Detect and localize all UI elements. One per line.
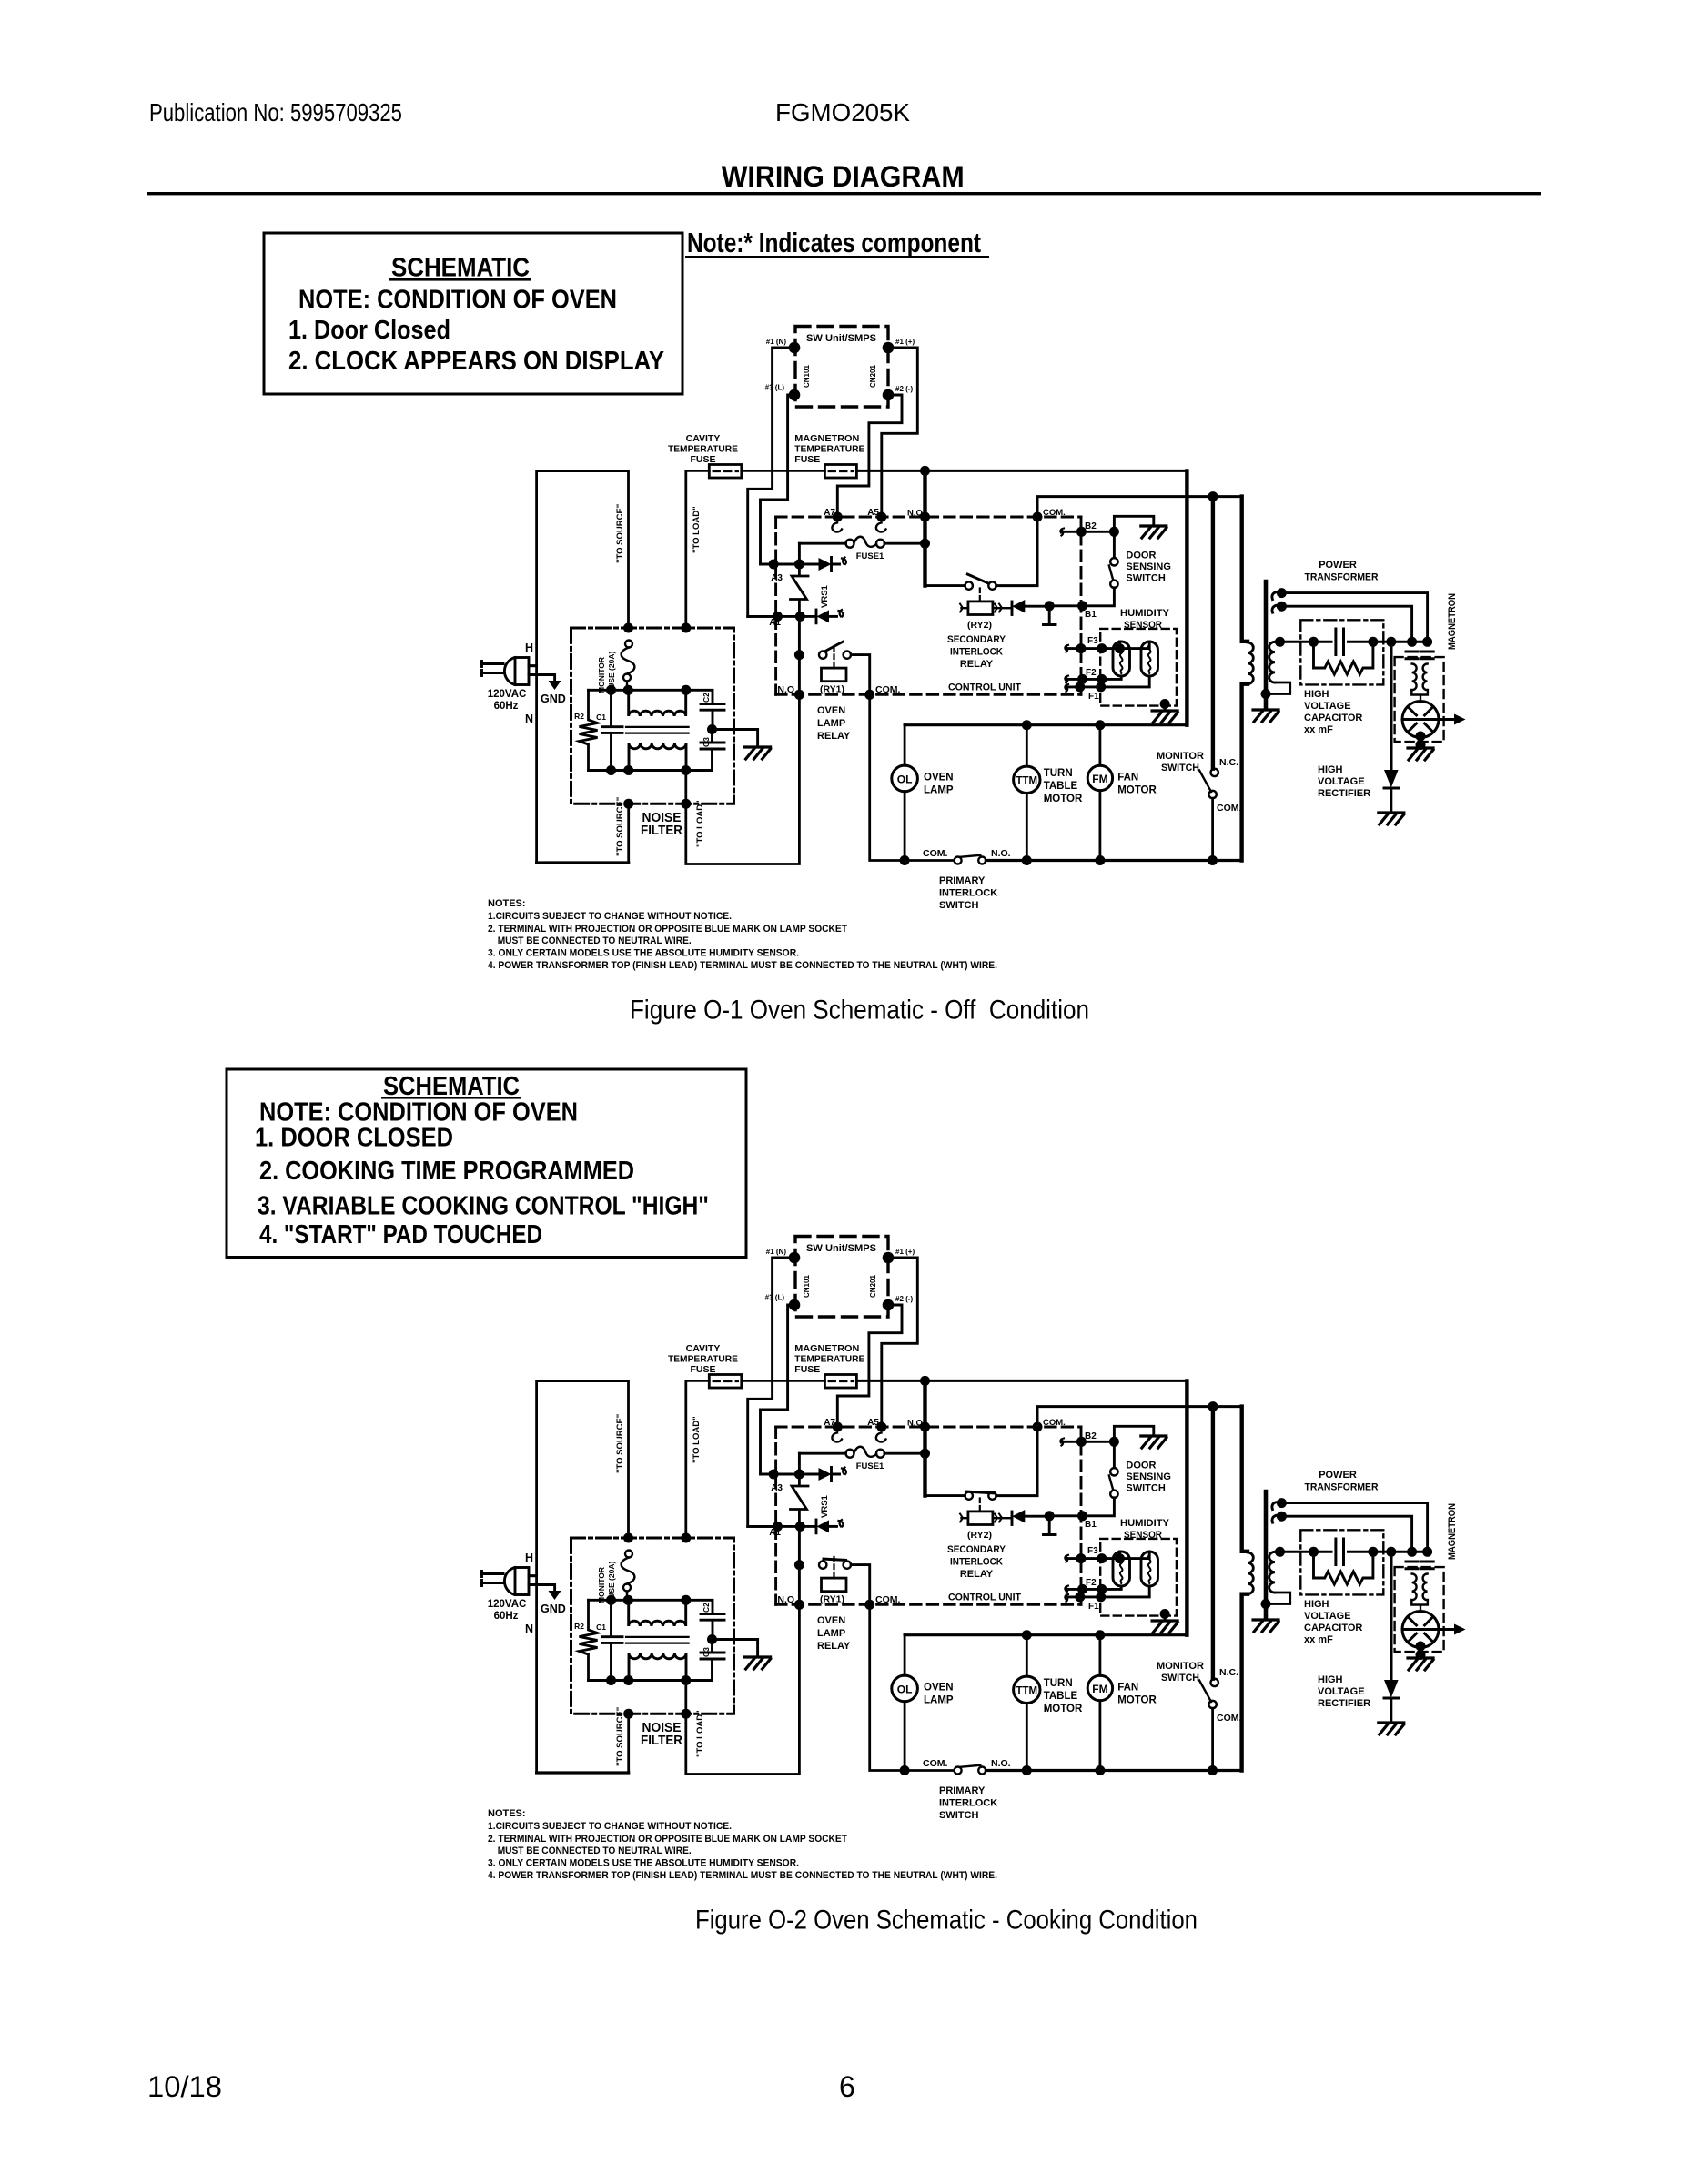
noise filter choke transformer [626, 690, 689, 770]
relay RY1 coil [833, 647, 834, 667]
svg-text:CN201: CN201 [869, 365, 877, 388]
svg-text:GND: GND [541, 693, 566, 705]
ground GND at plug [549, 681, 561, 690]
svg-text:OVEN: OVEN [817, 705, 845, 716]
svg-text:A3: A3 [771, 573, 783, 583]
svg-text:COM.: COM. [1217, 803, 1241, 814]
svg-text:SENSOR: SENSOR [1124, 620, 1162, 631]
svg-text:SW Unit/SMPS: SW Unit/SMPS [806, 333, 876, 344]
svg-text:CONTROL UNIT: CONTROL UNIT [948, 682, 1021, 693]
diode D1 [819, 558, 832, 571]
primary interlock switch [955, 857, 962, 864]
svg-text:B2: B2 [1085, 521, 1097, 531]
capacitor C2 [686, 690, 724, 729]
svg-text:FM: FM [1092, 773, 1107, 785]
noise filter upper junction line [589, 689, 686, 692]
wire: A1 junction down to RY1 [798, 616, 801, 694]
power transformer core [1264, 581, 1269, 709]
terminal B2 row [1062, 531, 1114, 558]
monitor switch [1211, 497, 1215, 769]
svg-text:LAMP: LAMP [817, 718, 845, 729]
relay RY1 contacts [819, 651, 826, 658]
varistor VRS1 [791, 564, 809, 616]
terminal F1 row [1066, 676, 1149, 687]
svg-text:LAMP: LAMP [924, 785, 954, 796]
pin #2 (-) [883, 389, 895, 401]
svg-text:HUMIDITY: HUMIDITY [1120, 608, 1170, 619]
magnetron filament chokes [1412, 664, 1417, 691]
svg-text:RELAY: RELAY [817, 731, 851, 742]
wire: RY2 to transformer feed riser [996, 497, 1242, 586]
svg-text:1.CIRCUITS SUBJECT TO CHANGE W: 1.CIRCUITS SUBJECT TO CHANGE WITHOUT NOT… [488, 911, 732, 922]
bleeder resistor [1314, 642, 1373, 674]
svg-text:xx mF: xx mF [1304, 724, 1333, 735]
svg-text:"TO SOURCE": "TO SOURCE" [615, 797, 625, 856]
wire: pin #1(+) to terminal A5 [882, 348, 918, 517]
svg-text:HIGH: HIGH [1318, 764, 1343, 775]
node TO SOURCE [623, 623, 633, 633]
relay RY2 blade (fig O-1, open) [966, 574, 988, 584]
svg-text:4. POWER TRANSFORMER TOP (FINI: 4. POWER TRANSFORMER TOP (FINISH LEAD) T… [488, 960, 997, 971]
Figure O-2 schematic: identical circuit, cooking condition [482, 1237, 1466, 1882]
svg-text:FAN: FAN [1117, 773, 1138, 784]
svg-text:WIRING DIAGRAM: WIRING DIAGRAM [722, 160, 965, 193]
pin #3 (L) [789, 389, 801, 401]
svg-text:OVEN: OVEN [924, 773, 954, 784]
wire: TO LOAD riser to top bus [686, 470, 710, 628]
svg-text:RECTIFIER: RECTIFIER [1318, 788, 1370, 799]
svg-text:TEMPERATURE: TEMPERATURE [668, 444, 738, 455]
svg-text:VRS1: VRS1 [820, 584, 830, 608]
title rule [147, 192, 1541, 195]
wire: RY1 to COM drop [851, 655, 869, 695]
svg-text:A7: A7 [824, 508, 835, 518]
svg-text:1. Door Closed: 1. Door Closed [288, 316, 450, 345]
svg-text:COM.: COM. [875, 684, 900, 695]
humidity sensor ground node [1160, 699, 1170, 709]
svg-text:VOLTAGE: VOLTAGE [1304, 701, 1351, 712]
svg-text:HIGH: HIGH [1304, 689, 1329, 700]
wire: N line from plug down to source-side bottom rail [537, 666, 629, 863]
diode D3 (RY2 coil feed) [1000, 607, 1012, 609]
svg-text:NOTES:: NOTES: [488, 898, 526, 909]
node dots at filter bottom edge [623, 799, 633, 809]
svg-text:C1: C1 [596, 713, 606, 722]
svg-text:#3 (L): #3 (L) [765, 384, 785, 392]
monitor fuse (20A) [622, 641, 635, 691]
control unit dashed box [776, 517, 1081, 694]
svg-text:INTERLOCK: INTERLOCK [939, 888, 997, 899]
svg-text:TRANSFORMER: TRANSFORMER [1305, 572, 1379, 583]
svg-text:N.O.: N.O. [991, 848, 1011, 859]
svg-text:FUSE1: FUSE1 [856, 551, 884, 561]
humidity sensor element 2 [1141, 642, 1158, 676]
svg-text:(RY1): (RY1) [820, 684, 844, 695]
svg-text:OL: OL [897, 773, 913, 786]
svg-text:TTM: TTM [1016, 776, 1037, 787]
svg-text:(RY2): (RY2) [967, 620, 992, 631]
svg-text:N: N [525, 713, 533, 725]
svg-text:"TO LOAD": "TO LOAD" [695, 800, 705, 847]
wire: filament lead 2 [1281, 606, 1411, 642]
magnetron filament feedthrough capacitors [1406, 652, 1433, 659]
wire: N.O. feed down to RY2 contact [923, 470, 926, 585]
wire: pin #1(N) to terminal A1 [748, 348, 794, 616]
svg-text:#1 (N): #1 (N) [766, 338, 787, 346]
svg-text:MUST BE CONNECTED TO NEUTRAL W: MUST BE CONNECTED TO NEUTRAL WIRE. [498, 935, 692, 946]
svg-text:#1 (+): #1 (+) [895, 338, 915, 346]
svg-text:F3: F3 [1087, 636, 1098, 646]
svg-text:A5: A5 [867, 508, 879, 518]
terminal A5 [876, 512, 886, 522]
svg-text:2. COOKING TIME PROGRAMMED: 2. COOKING TIME PROGRAMMED [259, 1157, 634, 1186]
magnetron tube [1402, 702, 1439, 738]
svg-text:MOTOR: MOTOR [1044, 794, 1083, 804]
relay RY1 blade (fig O-2, closed) [823, 1559, 848, 1561]
humidity sensor dashed box [1100, 629, 1177, 706]
power transformer primary riser [1242, 497, 1248, 861]
svg-text:CN101: CN101 [803, 365, 811, 388]
svg-text:Note:* Indicates component: Note:* Indicates component [687, 227, 981, 258]
svg-text:C2: C2 [702, 693, 711, 703]
svg-text:SENSING: SENSING [1126, 561, 1171, 572]
svg-text:6: 6 [839, 2070, 855, 2103]
door sensing switch [1110, 558, 1117, 565]
svg-text:N.C.: N.C. [1219, 757, 1238, 768]
svg-text:SWITCH: SWITCH [1161, 763, 1199, 773]
terminal F2 row [1066, 676, 1121, 679]
high voltage rectifier [1390, 642, 1392, 770]
svg-text:10/18: 10/18 [147, 2070, 222, 2103]
magnetron temperature fuse [824, 465, 856, 479]
svg-text:MAGNETRON: MAGNETRON [794, 433, 859, 444]
svg-text:DOOR: DOOR [1126, 551, 1156, 561]
cavity temperature fuse [709, 465, 742, 479]
SW Unit/SMPS dashed box [795, 327, 888, 408]
svg-text:POWER: POWER [1319, 560, 1357, 571]
svg-text:Figure O-1 Oven Schematic - Of: Figure O-1 Oven Schematic - Off Conditio… [630, 996, 1089, 1026]
wire: hot feed down to motor rail [1185, 470, 1188, 724]
svg-text:MONITOR: MONITOR [1157, 751, 1204, 762]
svg-text:CAVITY: CAVITY [686, 433, 721, 444]
wire: RY1 COM down to load rail [870, 694, 955, 860]
humidity sensor element 1 [1113, 642, 1130, 676]
HV capacitor plates [1336, 629, 1344, 655]
high voltage line [1280, 641, 1332, 643]
noise filter internal ground tap [713, 730, 758, 748]
svg-text:1. DOOR CLOSED: 1. DOOR CLOSED [255, 1124, 453, 1153]
node N.O. on control unit top edge [920, 512, 930, 522]
svg-text:CAPACITOR: CAPACITOR [1304, 713, 1362, 723]
pin #1 (+) [883, 342, 895, 354]
capacitor C1 [602, 690, 622, 770]
oven lamp OL [904, 725, 906, 766]
fan motor FM [1099, 725, 1102, 766]
svg-text:FUSE: FUSE [690, 454, 715, 465]
schematic note box 2 (Cooking condition) [227, 1069, 746, 1258]
svg-text:VOLTAGE: VOLTAGE [1318, 776, 1365, 787]
diode D2 [815, 610, 818, 623]
wire: H line from plug up and over to noise filter TO SOURCE [529, 471, 629, 666]
svg-text:3. VARIABLE COOKING CONTROL "H: 3. VARIABLE COOKING CONTROL "HIGH" [258, 1192, 709, 1221]
relay RY2 blade (fig O-2, closed) [965, 1491, 996, 1493]
svg-text:SCHEMATIC: SCHEMATIC [391, 254, 530, 283]
svg-text:A1: A1 [769, 618, 781, 628]
svg-text:"TO LOAD": "TO LOAD" [692, 506, 702, 553]
svg-text:N.O.: N.O. [907, 509, 925, 519]
transformer filament leads (finish lead hooks) [1272, 592, 1282, 613]
svg-text:MAGNETRON: MAGNETRON [1447, 593, 1458, 650]
capacitor C3 [686, 730, 724, 771]
svg-text:SECONDARY: SECONDARY [947, 634, 1006, 645]
svg-text:B1: B1 [1085, 610, 1097, 620]
svg-text:SWITCH: SWITCH [939, 900, 978, 911]
wire: source-side bottom rail [537, 861, 629, 864]
power transformer secondary winding [1269, 642, 1275, 682]
noise filter lower bus wire [589, 769, 686, 772]
relay RY1 blade (fig O-1, open) [824, 642, 844, 652]
node COM. on control unit top edge [1033, 512, 1043, 522]
motor supply rail [905, 723, 1187, 726]
svg-text:2. TERMINAL WITH PROJECTION OR: 2. TERMINAL WITH PROJECTION OR OPPOSITE … [488, 924, 847, 935]
svg-text:3. ONLY CERTAIN MODELS USE THE: 3. ONLY CERTAIN MODELS USE THE ABSOLUTE … [488, 948, 799, 959]
relay RY2 contacts [965, 581, 973, 589]
svg-text:TABLE: TABLE [1044, 781, 1078, 792]
resistor R2 [580, 690, 598, 770]
svg-text:MONITOR: MONITOR [597, 657, 606, 693]
svg-text:4. "START" PAD TOUCHED: 4. "START" PAD TOUCHED [259, 1220, 542, 1249]
svg-text:C3: C3 [702, 737, 711, 747]
power transformer primary winding [1248, 642, 1253, 684]
svg-text:F1: F1 [1088, 692, 1099, 702]
svg-text:Publication No: 5995709325: Publication No: 5995709325 [149, 98, 402, 126]
svg-text:INTERLOCK: INTERLOCK [950, 647, 1003, 658]
svg-text:Figure O-2 Oven Schematic - Co: Figure O-2 Oven Schematic - Cooking Cond… [695, 1906, 1198, 1936]
svg-text:FUSE: FUSE [794, 454, 820, 465]
svg-text:MOTOR: MOTOR [1117, 785, 1157, 796]
wire: B1 row to door sensing switch [1049, 588, 1114, 606]
svg-text:PRIMARY: PRIMARY [939, 875, 986, 886]
node TO LOAD [681, 623, 691, 633]
svg-text:#2 (-): #2 (-) [895, 385, 913, 393]
svg-text:COM.: COM. [1043, 508, 1066, 518]
svg-text:"TO SOURCE": "TO SOURCE" [615, 504, 625, 563]
svg-text:60Hz: 60Hz [494, 701, 519, 712]
AC plug 120VAC [482, 658, 555, 685]
noise filter dashed enclosure [571, 628, 734, 804]
wire: load line down from filter to RY1 N.O. feed [686, 694, 800, 864]
svg-text:FGMO205K: FGMO205K [775, 98, 910, 126]
svg-text:COM.: COM. [923, 848, 947, 859]
svg-text:120VAC: 120VAC [488, 689, 527, 700]
wire: B2 branch to ground [1114, 516, 1153, 531]
pin #1 (N) [789, 342, 801, 354]
wire: FUSE1 branch down to A3 row [798, 543, 801, 564]
magnetron dashed box [1395, 657, 1444, 742]
svg-text:N.O.: N.O. [777, 684, 797, 695]
svg-text:SWITCH: SWITCH [1126, 573, 1165, 584]
wire: pin #2(-) to terminal A7 [837, 395, 902, 517]
svg-text:RELAY: RELAY [960, 659, 994, 670]
terminal A3 row [761, 563, 819, 566]
svg-text:F2: F2 [1086, 668, 1097, 678]
svg-text:H: H [525, 642, 533, 654]
wire: top bus between fuses [742, 470, 825, 472]
fuse FUSE1 [799, 542, 845, 545]
terminal A7 [833, 512, 843, 522]
svg-text:FILTER: FILTER [641, 823, 682, 838]
load-side bottom rail with primary interlock switch [986, 859, 1241, 862]
wire: pin #3(L) to terminal A3 [761, 395, 795, 564]
terminal stub below B1 junction [1045, 601, 1055, 611]
wire: filament lead 1 [1281, 593, 1427, 642]
svg-text:2. CLOCK APPEARS ON DISPLAY: 2. CLOCK APPEARS ON DISPLAY [288, 347, 664, 376]
turntable motor TTM [1026, 725, 1028, 766]
wire: top bus to right corner [856, 470, 1187, 472]
terminal A1 row [748, 615, 816, 618]
relay RY2 coil [979, 589, 981, 602]
schematic note box 1 (Off condition) [264, 233, 682, 394]
svg-text:TEMPERATURE: TEMPERATURE [794, 444, 864, 455]
high voltage capacitor dashed box [1300, 620, 1383, 684]
svg-text:TURN: TURN [1044, 768, 1073, 779]
svg-text:NOTE: CONDITION OF OVEN: NOTE: CONDITION OF OVEN [298, 286, 617, 315]
svg-text:R2: R2 [574, 712, 584, 721]
terminal F3 row [1066, 642, 1149, 649]
